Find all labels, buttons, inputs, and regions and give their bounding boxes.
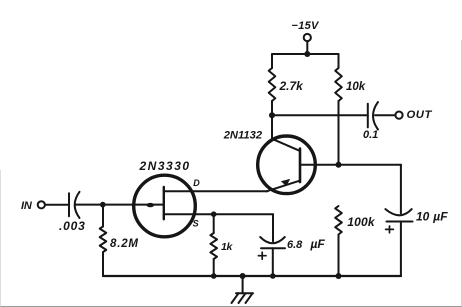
svg-text:2N1132: 2N1132 xyxy=(223,130,263,142)
svg-text:10k: 10k xyxy=(346,81,366,93)
svg-text:1k: 1k xyxy=(221,241,234,253)
svg-text:S: S xyxy=(193,219,199,229)
svg-text:10: 10 xyxy=(416,210,430,224)
svg-text:0.1: 0.1 xyxy=(363,129,378,141)
svg-text:8.2M: 8.2M xyxy=(110,238,139,250)
svg-text:µF: µF xyxy=(310,237,326,251)
svg-text:100k: 100k xyxy=(347,215,376,229)
svg-text:.003: .003 xyxy=(59,219,86,233)
svg-text:−15V: −15V xyxy=(292,20,321,32)
svg-text:2.7k: 2.7k xyxy=(279,79,305,93)
svg-text:D: D xyxy=(193,178,200,188)
svg-text:6.8: 6.8 xyxy=(287,239,303,251)
svg-text:IN: IN xyxy=(21,200,33,212)
svg-text:µF: µF xyxy=(432,210,448,224)
svg-text:2N3330: 2N3330 xyxy=(139,159,191,173)
svg-text:OUT: OUT xyxy=(407,109,433,121)
